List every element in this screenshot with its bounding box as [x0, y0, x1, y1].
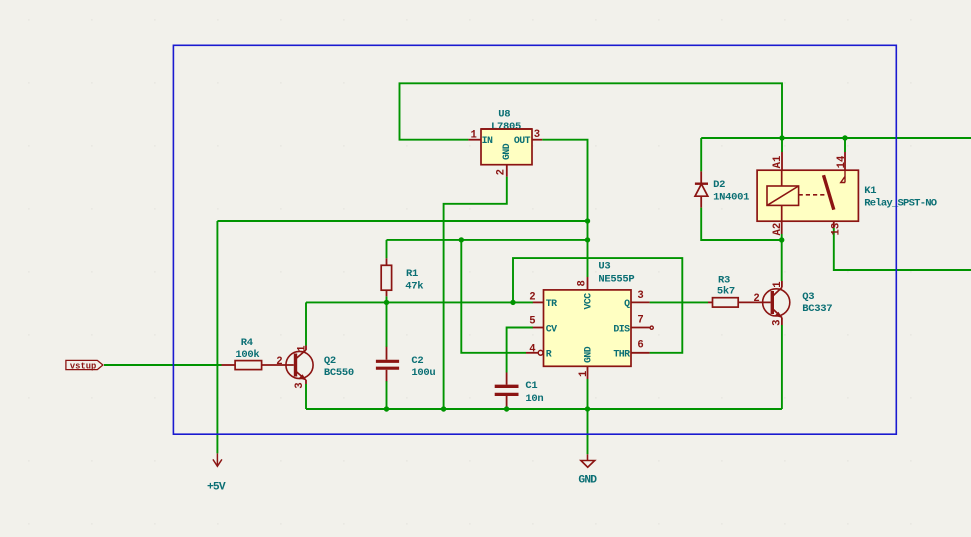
svg-text:GND: GND [501, 143, 512, 160]
svg-text:6: 6 [637, 340, 643, 352]
svg-text:A2: A2 [772, 223, 784, 236]
svg-text:L7805: L7805 [491, 121, 521, 133]
svg-text:IN: IN [482, 135, 493, 146]
svg-text:2: 2 [753, 293, 759, 305]
svg-text:DIS: DIS [613, 323, 630, 334]
svg-text:Relay_SPST-NO: Relay_SPST-NO [864, 197, 937, 209]
svg-text:1: 1 [471, 130, 477, 142]
svg-text:OUT: OUT [514, 135, 531, 146]
svg-text:CV: CV [546, 323, 557, 334]
svg-text:7: 7 [637, 315, 643, 327]
svg-text:BC550: BC550 [324, 367, 354, 379]
svg-text:R4: R4 [241, 337, 253, 349]
svg-text:R1: R1 [406, 268, 418, 280]
svg-text:10n: 10n [525, 393, 543, 405]
svg-text:5: 5 [529, 315, 535, 327]
svg-text:C2: C2 [411, 355, 423, 367]
svg-text:A1: A1 [772, 156, 784, 169]
svg-text:100k: 100k [235, 349, 259, 361]
svg-text:TR: TR [546, 298, 557, 309]
svg-text:13: 13 [831, 223, 843, 236]
svg-text:2: 2 [496, 169, 508, 175]
svg-text:3: 3 [294, 382, 306, 388]
svg-text:GND: GND [578, 474, 597, 486]
svg-text:Q: Q [624, 298, 630, 309]
svg-text:14: 14 [836, 155, 848, 168]
svg-text:1: 1 [578, 371, 590, 377]
svg-text:D2: D2 [713, 179, 725, 191]
svg-text:1: 1 [297, 345, 309, 351]
svg-text:3: 3 [637, 290, 643, 302]
svg-text:Q2: Q2 [324, 355, 336, 367]
svg-text:8: 8 [577, 280, 589, 286]
svg-text:2: 2 [276, 356, 282, 368]
svg-text:VCC: VCC [583, 293, 594, 310]
svg-text:47k: 47k [405, 281, 423, 293]
svg-text:U8: U8 [498, 109, 510, 121]
svg-text:+5V: +5V [207, 482, 226, 494]
svg-text:4: 4 [529, 344, 536, 356]
svg-text:1: 1 [772, 281, 784, 287]
svg-text:100u: 100u [411, 367, 435, 379]
svg-text:vstup: vstup [70, 361, 96, 371]
svg-text:K1: K1 [864, 185, 876, 197]
svg-text:NE555P: NE555P [598, 273, 634, 285]
svg-text:C1: C1 [525, 380, 537, 392]
svg-text:2: 2 [529, 291, 535, 303]
svg-text:BC337: BC337 [802, 303, 832, 315]
svg-text:THR: THR [613, 349, 630, 360]
svg-text:R: R [546, 349, 552, 360]
svg-text:GND: GND [583, 346, 594, 363]
svg-text:U3: U3 [598, 260, 610, 272]
svg-text:1N4001: 1N4001 [713, 192, 749, 204]
svg-text:5k7: 5k7 [717, 286, 735, 298]
svg-text:3: 3 [772, 320, 784, 326]
svg-text:Q3: Q3 [802, 291, 814, 303]
svg-text:3: 3 [534, 129, 540, 141]
